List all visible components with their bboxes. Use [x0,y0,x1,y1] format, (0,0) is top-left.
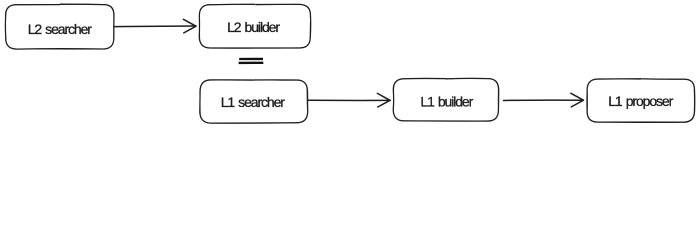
svg-text:L1 searcher: L1 searcher [221,94,286,110]
diagram: L2/L1 searcher-builder-proposer flow [0,0,700,129]
arrow L1 searcher to L1 builder [308,93,390,107]
box L1 proposer [587,79,695,123]
box L2 searcher [5,4,114,49]
box L1 searcher [200,80,308,123]
arrow L1 builder to L1 proposer [504,93,584,107]
box L1 builder [393,78,498,121]
box L2 builder [199,4,310,48]
svg-text:L2 searcher: L2 searcher [28,21,93,37]
svg-text:L2 builder: L2 builder [227,19,280,35]
equals sign between L2 builder and L1 searcher [239,59,264,63]
svg-text:L1 proposer: L1 proposer [608,93,673,109]
arrow L2 searcher to L2 builder [115,19,196,33]
svg-text:L1 builder: L1 builder [420,94,473,110]
